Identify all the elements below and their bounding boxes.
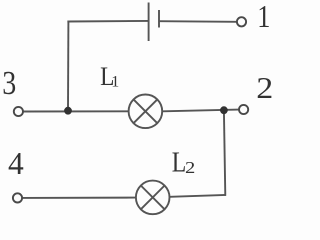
svg-text:3: 3 — [2, 65, 16, 102]
svg-text:2: 2 — [185, 158, 195, 177]
svg-text:1: 1 — [111, 74, 119, 91]
svg-text:2: 2 — [256, 71, 272, 105]
svg-text:4: 4 — [8, 146, 24, 181]
svg-text:1: 1 — [257, 0, 270, 34]
